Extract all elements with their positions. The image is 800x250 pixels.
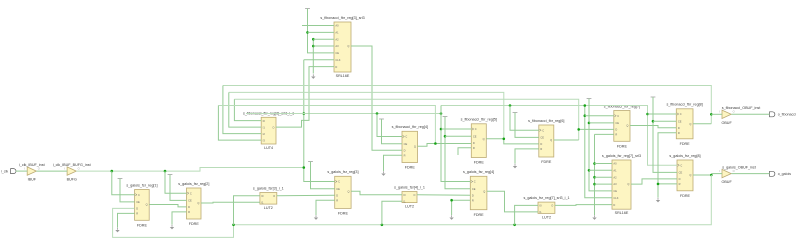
f5 R stub xyxy=(458,148,471,155)
LUT s_galois_fsr_reg[7]_srl3_i_1 (LUT2) xyxy=(523,196,569,219)
OBUF gal output xyxy=(731,173,769,175)
svg-text:D: D xyxy=(188,205,190,209)
svg-text:R: R xyxy=(336,198,338,202)
power VCC f7 xyxy=(587,99,592,101)
svg-text:i_clk: i_clk xyxy=(1,169,9,173)
svg-text:O: O xyxy=(272,125,274,129)
svg-text:C: C xyxy=(338,180,340,184)
svg-text:O: O xyxy=(551,204,553,208)
svg-text:R: R xyxy=(540,147,542,151)
svg-text:A1: A1 xyxy=(335,31,339,35)
power VCC f4 xyxy=(379,119,384,121)
junction clk C xyxy=(303,166,306,169)
svg-text:CE: CE xyxy=(473,134,477,138)
svg-text:s_galois_fsr_reg[1]: s_galois_fsr_reg[1] xyxy=(126,183,157,187)
svg-text:Q: Q xyxy=(627,182,629,186)
junction fib OBUF xyxy=(710,113,713,116)
svg-text:C: C xyxy=(475,127,477,131)
svg-text:s_fibonacci_fbr_reg[5]: s_fibonacci_fbr_reg[5] xyxy=(461,118,497,122)
svg-text:s_fibonacci_fbr_reg[4]: s_fibonacci_fbr_reg[4] xyxy=(392,125,428,129)
OBUF fib output xyxy=(731,113,769,115)
junction g8 R xyxy=(657,183,660,186)
A3 stub xyxy=(313,45,334,47)
svg-text:C: C xyxy=(405,135,407,139)
svg-text:BUFG: BUFG xyxy=(67,178,77,182)
svg-text:D: D xyxy=(136,207,138,211)
junction f6Q xyxy=(577,128,580,131)
g4 R to gnd xyxy=(452,200,471,215)
junction A2 xyxy=(312,38,315,41)
svg-text:FDRE: FDRE xyxy=(680,142,691,146)
svg-text:FDRE: FDRE xyxy=(680,194,691,198)
svg-text:FDRE: FDRE xyxy=(474,161,485,165)
f8 Q to OBUF xyxy=(693,123,711,125)
svg-text:O: O xyxy=(413,193,415,197)
port o_fibonacci xyxy=(770,112,797,117)
g1 Q to g2 D xyxy=(149,205,186,207)
buffer s_fibonacci_OBUF_inst (OBUF) xyxy=(719,106,760,125)
A0 stub xyxy=(302,25,334,27)
vcc to g2 CE xyxy=(170,175,187,201)
feedback to LUT2_4 I1 xyxy=(382,201,402,225)
flip-flop s_fibonacci_fbr_reg[5] (FDRE) xyxy=(461,118,497,165)
clk vertical to f7 C and sg CLK xyxy=(585,106,612,198)
sg gnd net xyxy=(594,134,596,215)
svg-text:s_galois_fsr_reg[4]: s_galois_fsr_reg[4] xyxy=(463,170,494,174)
junction f8 C xyxy=(646,113,649,116)
vcc to g3 CE xyxy=(311,162,335,189)
svg-text:C: C xyxy=(617,114,619,118)
SRL Q to f4 D xyxy=(351,46,402,150)
svg-text:SRL16E: SRL16E xyxy=(336,74,350,78)
power VCC f6 xyxy=(513,113,518,115)
svg-text:A0: A0 xyxy=(613,162,617,166)
ground ground g2 xyxy=(170,225,174,230)
svg-text:s_galois_fsr[3]_i_1: s_galois_fsr[3]_i_1 xyxy=(253,187,284,191)
svg-text:FDRE: FDRE xyxy=(405,166,416,170)
junction clk f7 xyxy=(584,104,587,107)
buffer s_galois_OBUF_inst (OBUF) xyxy=(719,165,756,184)
junction f5C g4C xyxy=(440,128,443,131)
vcc vertical f7 srlgal xyxy=(589,99,612,191)
svg-text:IBUF: IBUF xyxy=(28,178,37,182)
gnd net A2 A3 xyxy=(312,39,314,73)
svg-text:C: C xyxy=(474,180,476,184)
f7 Q to f8 D xyxy=(630,126,676,128)
svg-text:Q: Q xyxy=(197,201,199,205)
sg A3 stub xyxy=(595,183,613,185)
H3 wrap to LUT4 I0 xyxy=(234,99,261,120)
LUT2_4 O to g4 D xyxy=(417,194,470,196)
ground ground g3 xyxy=(314,215,318,220)
svg-text:CE: CE xyxy=(472,187,476,191)
f8 R to gnd net xyxy=(658,133,676,184)
clk drop to reg1 C xyxy=(112,171,135,195)
f4 Q to f5 D xyxy=(418,144,472,147)
junction f7 C xyxy=(584,114,587,117)
shift register s_fibonacci_fbr_reg[3]_srl3 (SRL16E) xyxy=(320,16,364,78)
vcc to g1 CE xyxy=(120,179,135,202)
svg-text:s_fibonacci_fbr_reg[6]: s_fibonacci_fbr_reg[6] xyxy=(528,119,564,123)
svg-text:FDRE: FDRE xyxy=(338,212,349,216)
svg-text:C: C xyxy=(542,128,544,132)
power VCC f8 xyxy=(651,97,656,99)
flip-flop s_fibonacci_fbr_reg[4] (FDRE) xyxy=(392,125,428,170)
f8 CE stub xyxy=(653,120,676,122)
flip-flop s_fibonacci_fbr_reg[7] (FDRE) xyxy=(604,104,640,148)
svg-text:CE: CE xyxy=(679,171,683,175)
f7 CE stub xyxy=(589,122,614,124)
flip-flop s_galois_fsr_reg[1] (FDRE) xyxy=(126,183,157,227)
flip-flop s_galois_fsr_reg[4] (FDRE) xyxy=(463,170,494,217)
flip-flop s_galois_fsr_reg[8] (FDRE) xyxy=(669,154,700,198)
f6 Q stub xyxy=(554,139,579,141)
svg-text:FDRE: FDRE xyxy=(541,160,552,164)
svg-text:C: C xyxy=(680,112,682,116)
clk to f4 C xyxy=(377,114,402,137)
svg-text:CE: CE xyxy=(188,199,192,203)
bus H2 xyxy=(229,92,504,138)
svg-text:Q: Q xyxy=(550,138,552,142)
g2 R to gnd xyxy=(172,212,187,225)
svg-text:Q: Q xyxy=(689,173,691,177)
svg-text:Q: Q xyxy=(689,122,691,126)
feedback to LUT2_3 I0 xyxy=(234,196,260,225)
svg-text:O: O xyxy=(733,169,735,173)
feedback to LUT2_srl I0 xyxy=(515,205,538,224)
svg-text:R: R xyxy=(472,198,474,202)
g2 Q to LUT2_3 I1 xyxy=(201,201,260,204)
svg-text:D: D xyxy=(472,193,474,197)
svg-text:FDRE: FDRE xyxy=(474,213,485,217)
svg-text:R: R xyxy=(473,146,475,150)
svg-text:CE: CE xyxy=(678,119,682,123)
svg-text:CE: CE xyxy=(615,121,619,125)
junction A1 xyxy=(306,31,309,34)
LUT s_galois_fsr[4]_i_1 (LUT2) xyxy=(394,186,425,209)
svg-text:LUT2: LUT2 xyxy=(542,215,551,219)
H2 wrap to LUT4 I1 xyxy=(229,92,261,127)
galois feedback trunk xyxy=(113,175,712,237)
sg A0 gnd stub xyxy=(595,163,613,165)
bus H1 xyxy=(223,86,711,124)
vcc to SRL CE xyxy=(308,9,335,53)
svg-text:s_galois_OBUF_inst: s_galois_OBUF_inst xyxy=(722,165,756,169)
svg-text:R: R xyxy=(679,182,681,186)
g3 R to gnd xyxy=(316,200,335,215)
junction f8 CE xyxy=(652,120,655,123)
power VCC g2 xyxy=(168,175,173,177)
flip-flop s_fibonacci_fbr_reg[8] (FDRE) xyxy=(666,103,702,146)
svg-text:Q: Q xyxy=(626,124,628,128)
svg-text:R: R xyxy=(404,153,406,157)
junction sg A1 xyxy=(588,169,591,172)
LUT2_srl O to SRL gal D xyxy=(555,204,612,207)
svg-text:D: D xyxy=(336,193,338,197)
svg-text:R: R xyxy=(136,212,138,216)
junction f7 CE xyxy=(588,122,591,125)
A1 stub xyxy=(308,31,335,33)
svg-text:C: C xyxy=(680,163,682,167)
svg-text:C: C xyxy=(190,191,192,195)
clk trunk BUFG output xyxy=(76,168,303,172)
svg-text:s_galois_fsr[4]_i_1: s_galois_fsr[4]_i_1 xyxy=(394,186,425,190)
LUT4 O to SRL D xyxy=(276,67,334,128)
ground ground f6 xyxy=(513,164,517,169)
svg-text:FDRE: FDRE xyxy=(137,224,148,228)
svg-text:I: I xyxy=(719,110,720,114)
junction A3 xyxy=(312,45,315,48)
svg-text:s_fibonacci_fbr_reg[3]_srl3: s_fibonacci_fbr_reg[3]_srl3 xyxy=(320,16,364,20)
svg-text:LUT4: LUT4 xyxy=(264,146,273,150)
svg-text:s_fibonacci_fbr_reg[8]: s_fibonacci_fbr_reg[8] xyxy=(666,103,702,107)
svg-text:D: D xyxy=(404,148,406,152)
svg-text:Q: Q xyxy=(347,44,349,48)
svg-text:D: D xyxy=(540,142,542,146)
f4 R to gnd xyxy=(384,155,403,171)
vcc to f5 CE and g4 CE xyxy=(445,117,470,189)
junction f5Q xyxy=(503,138,506,141)
junction f5 CE xyxy=(444,135,447,138)
svg-text:R: R xyxy=(615,133,617,137)
ground ground SRL fib xyxy=(311,74,315,79)
junction clk D xyxy=(303,112,306,115)
svg-text:CE: CE xyxy=(540,136,544,140)
clock vertical xyxy=(304,60,335,182)
clk to f8 C xyxy=(648,113,677,115)
vcc to f8 CE and g8 CE xyxy=(653,97,677,172)
svg-text:OBUF: OBUF xyxy=(721,180,732,184)
junction clk f6 xyxy=(509,104,512,107)
OBUF gal input xyxy=(711,173,722,175)
f6 Q to f7 D xyxy=(579,128,614,130)
svg-text:A0: A0 xyxy=(335,24,339,28)
svg-text:CE: CE xyxy=(335,51,339,55)
svg-text:A3: A3 xyxy=(613,182,617,186)
svg-text:CE: CE xyxy=(613,189,617,193)
sg A2 stub xyxy=(595,176,613,178)
junction clk A xyxy=(111,170,114,173)
flip-flop s_galois_fsr_reg[2] (FDRE) xyxy=(178,182,209,226)
svg-text:s_galois_fsr_reg[8]: s_galois_fsr_reg[8] xyxy=(669,154,700,158)
junction g4 R xyxy=(450,199,453,202)
svg-text:R: R xyxy=(188,210,190,214)
svg-text:D: D xyxy=(615,128,617,132)
svg-text:s_galois_fsr_reg[2]: s_galois_fsr_reg[2] xyxy=(178,182,209,186)
OBUF fib input xyxy=(711,113,722,115)
clk to f6 C xyxy=(510,106,539,131)
svg-text:CE: CE xyxy=(136,200,140,204)
g4 Q to LUT2_srl I1 xyxy=(487,191,538,212)
wire IBUF to BUFG xyxy=(36,170,67,172)
svg-text:Q: Q xyxy=(483,190,485,194)
svg-text:O: O xyxy=(78,166,80,170)
LUT2_3 O to g3 D xyxy=(277,194,335,197)
junction sg A3 xyxy=(593,183,596,186)
svg-text:FDRE: FDRE xyxy=(617,145,628,149)
svg-text:C: C xyxy=(138,193,140,197)
svg-text:D: D xyxy=(473,141,475,145)
clock bus low segment xyxy=(246,113,441,115)
ground ground g1 xyxy=(115,228,119,233)
svg-text:s_galois_fsr_reg[7]_srl3: s_galois_fsr_reg[7]_srl3 xyxy=(602,154,641,158)
svg-text:s_fibonacci_fbr_reg[7]: s_fibonacci_fbr_reg[7] xyxy=(604,104,640,108)
A2 stub xyxy=(313,38,334,40)
junction clk B xyxy=(164,170,167,173)
g8 R to gnd xyxy=(658,184,677,198)
flip-flop s_galois_fsr_reg[3] (FDRE) xyxy=(327,170,358,216)
f7 R to gnd net xyxy=(595,133,614,135)
g8 Q to OBUF xyxy=(693,174,711,176)
power VCC f5 xyxy=(443,117,448,119)
bus H4 tap4 xyxy=(218,106,435,144)
svg-text:A3: A3 xyxy=(335,44,339,48)
bus H3 xyxy=(234,99,578,140)
SRL16E fib CLK stub xyxy=(304,59,334,61)
clk vertical x441 xyxy=(441,106,470,182)
svg-text:A1: A1 xyxy=(613,169,617,173)
svg-text:Q: Q xyxy=(146,203,148,207)
power VCC top xyxy=(305,9,310,11)
junction H5 f4 xyxy=(376,112,379,115)
junction sg A0 xyxy=(593,162,596,165)
junction f4Q tap xyxy=(434,142,437,145)
shift register s_galois_fsr_reg[7]_srl3 (SRL16E) xyxy=(602,154,641,215)
LUT s_fibonacci_fbr_reg[3]_srl3_i_1 (LUT4) xyxy=(243,111,294,150)
H4 wrap to LUT4 I3 xyxy=(218,106,261,141)
svg-text:Q: Q xyxy=(347,190,349,194)
svg-text:O: O xyxy=(733,110,735,114)
svg-text:s_galois_fsr_reg[3]: s_galois_fsr_reg[3] xyxy=(327,170,358,174)
svg-text:SRL16E: SRL16E xyxy=(615,211,629,215)
svg-text:i_clk_IBUF_inst: i_clk_IBUF_inst xyxy=(19,163,45,167)
power VCC g3 xyxy=(308,162,313,164)
clock bus high segment xyxy=(441,106,677,166)
svg-text:FDRE: FDRE xyxy=(189,222,200,226)
svg-text:s_galois_fsr_reg[7]_srl3_i_1: s_galois_fsr_reg[7]_srl3_i_1 xyxy=(523,196,569,200)
svg-text:o_galois: o_galois xyxy=(778,172,792,176)
svg-text:O: O xyxy=(38,166,40,170)
svg-text:Q: Q xyxy=(414,145,416,149)
junction sg A2 xyxy=(593,176,596,179)
vcc to f6 CE xyxy=(515,113,539,138)
junction trunk a xyxy=(232,224,235,227)
svg-text:CE: CE xyxy=(336,187,340,191)
svg-text:A2: A2 xyxy=(335,37,339,41)
clk to f5 C xyxy=(441,128,471,130)
clk drop to reg2 C xyxy=(165,171,187,193)
svg-text:I: I xyxy=(719,169,720,173)
svg-text:R: R xyxy=(678,131,680,135)
ground ground sg xyxy=(592,215,596,220)
input port i_clk xyxy=(1,169,16,174)
port o_galois xyxy=(770,171,792,176)
ground ground f4 xyxy=(381,171,385,176)
junction clk bus join xyxy=(440,112,443,115)
ground ground g4 xyxy=(449,215,453,220)
svg-text:CE: CE xyxy=(404,142,408,146)
svg-text:LUT2: LUT2 xyxy=(264,206,273,210)
f5 CE stub xyxy=(445,135,471,137)
svg-text:o_fibonacci: o_fibonacci xyxy=(778,113,796,117)
svg-text:D: D xyxy=(678,126,680,130)
svg-text:OBUF: OBUF xyxy=(721,121,732,125)
g1 R to gnd xyxy=(118,213,135,227)
vcc to f4 CE xyxy=(382,119,403,144)
power VCC g1 xyxy=(118,179,123,181)
svg-text:Q: Q xyxy=(483,137,485,141)
svg-text:s_fibonacci_OBUF_inst: s_fibonacci_OBUF_inst xyxy=(722,106,761,110)
ground ground g8 xyxy=(656,198,660,203)
svg-text:D: D xyxy=(335,65,337,69)
junction trunk b xyxy=(381,224,384,227)
junction trunk c xyxy=(513,224,516,227)
buffer i_clk_IBUF_BUFG_inst (BUFG) xyxy=(53,163,91,182)
f6 R to gnd xyxy=(515,149,539,164)
sg A1 stub xyxy=(589,169,612,171)
svg-text:D: D xyxy=(613,203,615,207)
wire i_clk port to IBUF xyxy=(16,170,27,172)
svg-text:O: O xyxy=(273,194,275,198)
g3 Q to LUT2_4 I0 xyxy=(351,191,402,195)
H1 wrap to LUT4 I2 xyxy=(223,86,261,134)
LUT s_galois_fsr[3]_i_1 (LUT2) xyxy=(253,187,284,211)
buffer i_clk_IBUF_inst (IBUF) xyxy=(19,163,45,182)
svg-text:CLK: CLK xyxy=(613,196,618,200)
svg-text:i_clk_IBUF_BUFG_inst: i_clk_IBUF_BUFG_inst xyxy=(53,163,91,167)
f5 Q chain xyxy=(486,139,539,144)
junction gal OBUF xyxy=(710,174,713,177)
svg-text:D: D xyxy=(679,177,681,181)
svg-text:LUT2: LUT2 xyxy=(405,205,414,209)
SRL gal Q to g8 D xyxy=(631,179,677,184)
clk to f7 C xyxy=(585,115,614,117)
flip-flop s_fibonacci_fbr_reg[6] (FDRE) xyxy=(528,119,564,164)
svg-text:CLK: CLK xyxy=(335,58,340,62)
svg-text:A2: A2 xyxy=(613,175,617,179)
